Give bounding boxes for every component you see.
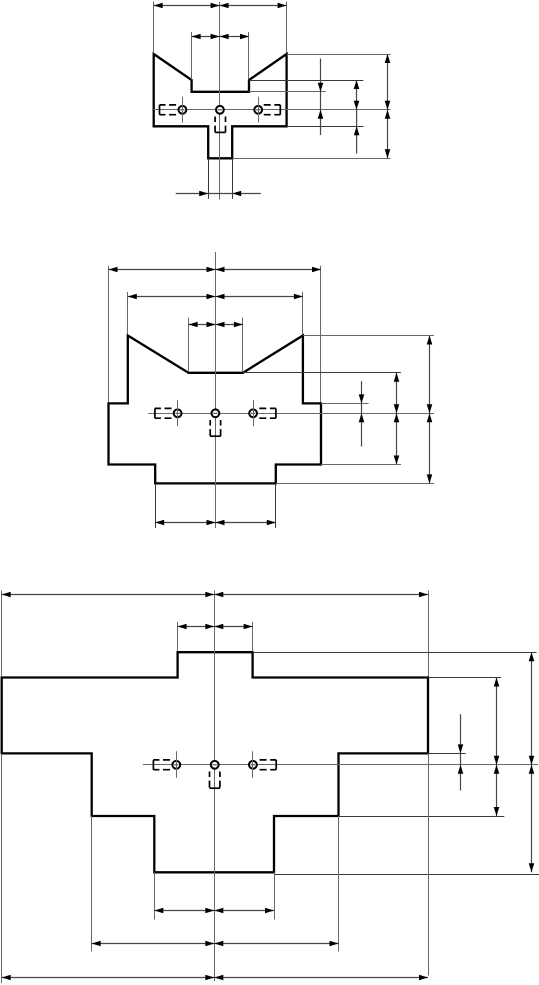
figure 1 outline: die block, V-groove top, bottom stem — [154, 54, 287, 158]
fig1 mini centerline left hole — [182, 97, 184, 123]
fig2 hidden slot below center hole (dashed) — [210, 420, 220, 436]
fig2 dimension centerline to shoulder — [394, 413, 400, 464]
fig2 extension line top-right corner up — [302, 292, 304, 335]
fig3 hole left — [172, 761, 180, 769]
fig2 dimension centerline to flange bottom — [427, 413, 433, 483]
fig1 extension line left edge up — [153, 2, 155, 54]
fig1 extension line stem bottom level right — [232, 158, 390, 160]
fig2 extension line groove flat left up — [188, 318, 190, 372]
fig1 horizontal centerline through holes — [152, 109, 391, 111]
fig3 extension line left edge down — [1, 753, 3, 983]
fig1 hidden slot left (dashed) — [160, 105, 180, 115]
fig3 extension line bottom boss left down — [154, 872, 156, 919]
fig2 extension line outer right edge up — [320, 266, 322, 403]
fig3 extension line boss right up — [252, 622, 254, 652]
fig3 hidden slot right (dashed) — [258, 760, 277, 770]
fig3 extension line right step down — [338, 816, 340, 951]
fig3 dimension centerline to bottom — [529, 765, 535, 873]
fig2 dimension outer width (split at centerline) — [109, 267, 322, 273]
fig1 dimension stem width (arrows outside) — [176, 191, 261, 197]
fig1 dimension groove slot width (split at centerline) — [192, 34, 249, 40]
fig2 dimension top corner to centerline — [427, 336, 433, 414]
fig3 dimension centerline to shoulder2 — [494, 765, 500, 816]
fig2 vertical centerline — [215, 252, 217, 528]
fig1 hidden slot right (dashed) — [261, 105, 281, 115]
fig1 extension line slant-bottom level right — [249, 80, 363, 82]
fig2 hidden slot left (dashed) — [155, 408, 175, 418]
fig1 hole right — [254, 106, 262, 114]
fig2 dimension groove bottom to centerline — [394, 373, 400, 414]
fig3 dimension boss top to centerline — [529, 652, 535, 765]
figure 2 outline: larger die block with V-groove and steps — [109, 336, 322, 484]
fig3 extension line shoulder2 level right — [339, 816, 505, 818]
fig2 extension line step level right — [321, 403, 369, 405]
fig3 extension line boss top level right — [253, 652, 537, 654]
fig3 extension line left step down — [91, 816, 93, 951]
fig2 hole right — [249, 409, 257, 417]
fig3 mini centerline left hole — [176, 751, 178, 778]
fig1 dimension slant bottom to centerline — [354, 80, 360, 110]
fig3 dimension main top to centerline — [494, 678, 500, 765]
fig1 hole left — [179, 106, 187, 114]
fig1 vertical centerline — [219, 2, 221, 200]
fig2 dimension bottom flange width (split at centerline) — [155, 520, 276, 526]
fig3 dimension shoulder1 to centerline (arrows outside) — [458, 714, 464, 790]
fig3 vertical centerline — [214, 591, 216, 982]
fig1 extension line groove right wall up — [248, 32, 250, 80]
fig3 extension line right edge up — [428, 591, 430, 677]
fig1 hidden slot below center hole (dashed) — [215, 117, 225, 133]
fig3 hidden slot left (dashed) — [153, 760, 171, 770]
fig1 extension line stem left edge down — [208, 158, 210, 198]
fig1 hole center — [216, 106, 224, 114]
fig2 extension line groove flat right up — [242, 318, 244, 372]
fig1 extension line stem right edge down — [232, 158, 234, 198]
fig2 horizontal centerline through holes — [148, 413, 434, 415]
fig1 extension line top edge level right — [287, 54, 391, 56]
fig1 dimension top edge to centerline — [385, 54, 391, 110]
fig2 hole center — [212, 409, 220, 417]
fig1 dimension overall width (split at centerline) — [154, 3, 287, 9]
fig1 dimension centerline to stem bottom — [385, 110, 391, 159]
fig3 extension line bottom level right — [274, 874, 539, 876]
fig3 extension line left edge up — [1, 591, 3, 677]
fig2 extension line flange bottom level right — [276, 483, 434, 485]
fig3 extension line bottom boss right down — [274, 872, 276, 919]
fig1 extension line groove bottom level right — [249, 91, 326, 93]
fig2 mini centerline left hole — [177, 400, 179, 426]
fig3 dimension middle step width (split at centerline) — [92, 941, 339, 947]
fig2 hole left — [174, 409, 182, 417]
fig3 extension line main top level right — [428, 677, 501, 679]
fig2 dimension groove flat width (split at centerline) — [189, 322, 243, 328]
fig3 dimension overall width bottom (split at centerline) — [2, 975, 428, 981]
fig1 dimension groove bottom to hole centerline (arrows outside) — [318, 59, 324, 136]
fig3 dimension overall width (split at centerline) — [2, 592, 428, 598]
fig2 extension line top corner level right — [303, 335, 434, 337]
fig1 extension line plate bottom level right — [287, 126, 364, 128]
fig2 dimension top corners width (split at centerline) — [128, 294, 303, 300]
fig3 horizontal centerline through holes — [143, 764, 538, 766]
fig3 dimension bottom boss width (split at centerline) — [154, 908, 274, 914]
fig1 extension line right edge up — [286, 2, 288, 54]
fig2 hidden slot right (dashed) — [256, 408, 276, 418]
fig1 mini centerline right hole — [258, 97, 260, 123]
fig2 extension line outer left edge up — [108, 266, 110, 403]
fig2 extension line top-left corner up — [127, 292, 129, 335]
fig3 extension line shoulder1 level right — [428, 753, 466, 755]
fig3 dimension boss width (split at centerline) — [178, 624, 253, 630]
fig2 extension line groove bottom level right — [243, 372, 401, 374]
fig3 hole center — [211, 761, 219, 769]
fig3 extension line right edge down — [428, 753, 430, 975]
fig2 extension line shoulder level right — [321, 464, 401, 466]
fig3 hole right — [249, 761, 257, 769]
figure 3 outline: widest stepped die block with top boss — [2, 652, 428, 872]
fig2 extension line flange right edge down — [275, 483, 277, 528]
fig1 extension line groove left wall up — [191, 32, 193, 80]
fig2 extension line flange left edge down — [155, 483, 157, 528]
fig3 hidden slot below center hole (dashed) — [210, 772, 220, 789]
fig3 extension line boss left up — [177, 622, 179, 652]
fig1 dimension centerline to plate bottom (outside arrow, tail down) — [354, 110, 360, 154]
fig2 dimension step to hole centerline (arrows outside) — [359, 381, 365, 446]
fig3 mini centerline right hole — [252, 751, 254, 778]
fig2 mini centerline right hole — [253, 400, 255, 426]
